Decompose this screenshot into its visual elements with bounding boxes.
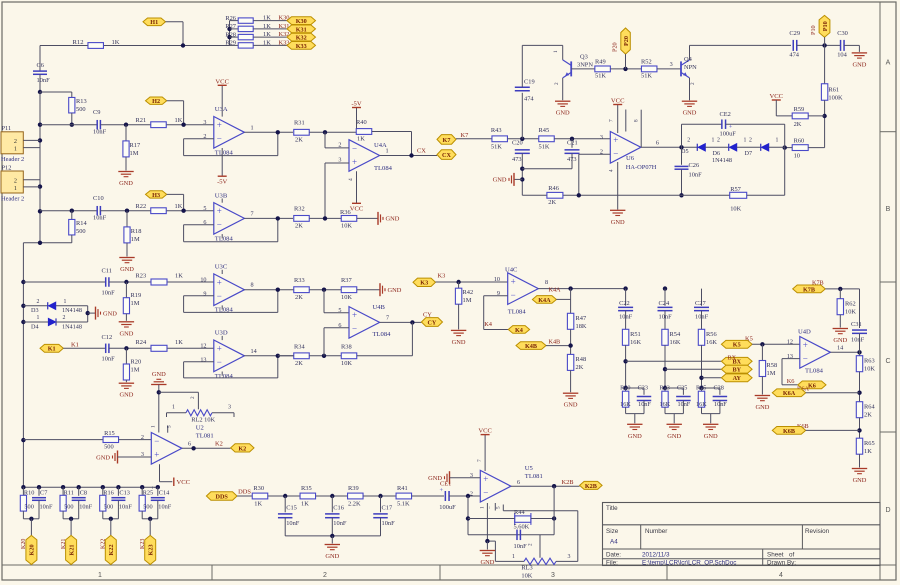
svg-text:16K: 16K [706, 339, 717, 346]
svg-text:HA-OP07H: HA-OP07H [626, 164, 657, 171]
port K4B [516, 342, 546, 350]
svg-text:K1: K1 [71, 342, 79, 349]
svg-text:P11: P11 [2, 125, 12, 132]
resistor R46 2K [547, 192, 563, 198]
port K6A [772, 389, 805, 397]
svg-text:TL084: TL084 [805, 368, 824, 375]
svg-text:GND: GND [704, 433, 718, 440]
svg-text:10nF: 10nF [37, 77, 51, 84]
resistor R21 1K [151, 122, 167, 128]
svg-text:3: 3 [338, 156, 341, 163]
svg-text:R56: R56 [706, 331, 717, 338]
svg-text:1K: 1K [263, 31, 271, 38]
svg-text:GND: GND [755, 404, 769, 411]
svg-text:+: + [511, 276, 516, 286]
port H1 [143, 18, 166, 26]
svg-text:K30: K30 [296, 18, 307, 25]
wire Q4 collector [689, 45, 691, 60]
port K4A [532, 296, 556, 304]
op-amp U5 TL081 [480, 470, 511, 502]
svg-text:A: A [886, 60, 891, 67]
potentiometer RL3 10K [524, 558, 556, 564]
svg-text:8: 8 [545, 279, 548, 286]
ground power port U2 pin3 [117, 451, 119, 464]
svg-text:GND: GND [120, 266, 134, 273]
svg-text:U5: U5 [525, 465, 534, 472]
svg-text:K2B: K2B [562, 479, 574, 486]
resistor R22 1K [151, 208, 167, 214]
svg-text:VCC: VCC [478, 428, 492, 435]
svg-text:1: 1 [98, 572, 102, 579]
svg-text:1N4148: 1N4148 [62, 324, 82, 331]
resistor R18 1M [126, 211, 128, 227]
svg-text:+: + [352, 310, 357, 320]
port DDS [206, 492, 237, 501]
resistor R43 51K [492, 136, 508, 142]
svg-text:10nF: 10nF [102, 356, 116, 363]
op-amp U3B TL084 [214, 203, 245, 235]
resistor R39 2.2K [348, 493, 364, 499]
svg-text:K20: K20 [29, 544, 36, 555]
resistor R42 1M [458, 282, 460, 288]
svg-text:1: 1 [776, 138, 779, 144]
power VCC U6 pin7 [617, 105, 619, 134]
svg-text:2: 2 [323, 572, 327, 579]
svg-text:+: + [483, 474, 488, 484]
svg-text:1M: 1M [131, 367, 140, 374]
svg-text:3: 3 [568, 554, 571, 560]
svg-text:GND: GND [564, 402, 578, 409]
svg-text:2K: 2K [864, 412, 872, 419]
svg-text:GND: GND [853, 477, 867, 484]
resistor R58 1M [761, 344, 763, 360]
svg-text:Number: Number [645, 528, 667, 535]
svg-text:K32: K32 [296, 35, 307, 42]
svg-text:−: − [217, 357, 222, 367]
svg-text:10nF: 10nF [119, 504, 132, 511]
port CX [437, 150, 456, 160]
svg-text:R41: R41 [397, 485, 408, 492]
svg-text:R60: R60 [794, 138, 805, 145]
svg-text:2K: 2K [548, 199, 556, 206]
svg-text:C14: C14 [159, 490, 170, 497]
op-amp U4A TL084 [349, 140, 380, 172]
svg-text:of: of [789, 552, 795, 559]
svg-text:R21: R21 [136, 117, 147, 124]
ground R19 [119, 321, 134, 323]
svg-text:K6: K6 [787, 378, 795, 385]
wire capacitor bottom bus [285, 535, 380, 537]
svg-text:1: 1 [14, 146, 17, 153]
svg-text:R62: R62 [845, 301, 856, 308]
svg-text:R59: R59 [794, 106, 805, 113]
svg-text:E:\temp\LCR\lcr\LCR_OP.SchDoc: E:\temp\LCR\lcr\LCR_OP.SchDoc [642, 559, 736, 566]
svg-text:2: 2 [14, 177, 17, 184]
wire R15 row [23, 439, 103, 441]
wire U4D feedback [782, 358, 800, 360]
svg-text:R33: R33 [294, 277, 305, 284]
svg-text:10nF: 10nF [382, 520, 396, 527]
wire U3B feedback [184, 224, 214, 226]
svg-text:C6: C6 [37, 62, 44, 69]
svg-text:3: 3 [203, 119, 206, 126]
svg-text:GND: GND [628, 433, 642, 440]
svg-text:+: + [352, 157, 357, 167]
svg-text:1M: 1M [131, 300, 140, 307]
svg-text:R50: R50 [620, 385, 630, 392]
svg-text:K1: K1 [48, 346, 56, 353]
capacitor C30 104 [840, 40, 842, 51]
svg-text:TL084: TL084 [373, 331, 392, 338]
svg-text:CX: CX [417, 147, 426, 154]
power VCC U5 pin7 [484, 435, 486, 471]
svg-text:TL081: TL081 [196, 432, 214, 439]
diode D7 1N4148 [760, 144, 762, 151]
resistor R52 51K [641, 66, 657, 72]
wire Q3 collector net [522, 44, 562, 46]
svg-text:R64: R64 [864, 404, 875, 411]
svg-text:1K: 1K [254, 501, 262, 508]
ground power port R37 [379, 283, 381, 296]
svg-text:10nF: 10nF [93, 215, 107, 222]
svg-text:C11: C11 [102, 268, 112, 275]
resistor R17 1M [125, 125, 127, 141]
svg-text:D: D [885, 507, 890, 514]
resistor R36 10K [341, 216, 357, 222]
resistor R65 1K [856, 438, 862, 454]
svg-text:10K: 10K [845, 309, 856, 316]
svg-text:CE2: CE2 [720, 111, 731, 118]
svg-text:VCC: VCC [350, 206, 364, 213]
svg-text:10K: 10K [341, 223, 352, 230]
ground R48 [563, 392, 578, 394]
svg-text:NPN: NPN [684, 64, 697, 71]
svg-text:2K: 2K [576, 364, 584, 371]
svg-text:RL3: RL3 [521, 565, 532, 572]
svg-text:10nF: 10nF [851, 337, 865, 344]
svg-text:GND: GND [556, 110, 570, 117]
svg-text:+: + [217, 206, 222, 216]
ground R58 [755, 395, 770, 397]
svg-text:R25: R25 [143, 490, 154, 497]
svg-text:C10: C10 [93, 195, 104, 202]
svg-text:GND: GND [152, 371, 166, 378]
svg-text:C13: C13 [119, 490, 129, 497]
wire row2 with capacitor C10 10nF [40, 210, 97, 212]
svg-text:R58: R58 [767, 362, 778, 369]
svg-text:1: 1 [37, 315, 40, 321]
svg-text:14: 14 [251, 348, 257, 355]
svg-text:474: 474 [524, 96, 534, 103]
svg-text:P20: P20 [623, 36, 630, 46]
wire net K7 row [456, 138, 492, 140]
svg-text:6: 6 [188, 441, 191, 448]
svg-text:R19: R19 [131, 292, 142, 299]
svg-text:1: 1 [172, 405, 175, 411]
resistor R23 1K [151, 279, 167, 285]
svg-text:+: + [154, 450, 159, 460]
wire U3D feedback [184, 361, 214, 363]
resistor R35 1K [300, 493, 316, 499]
svg-text:R48: R48 [576, 356, 587, 363]
svg-text:2: 2 [63, 315, 66, 321]
svg-text:10K: 10K [730, 206, 741, 213]
potentiometer RL2 10K [186, 410, 212, 416]
svg-text:GND: GND [119, 330, 133, 337]
svg-text:4: 4 [609, 169, 615, 172]
svg-text:R34: R34 [294, 344, 305, 351]
svg-text:C16: C16 [333, 504, 344, 511]
ground U6 pin4 [617, 162, 619, 210]
port K3 [413, 278, 436, 286]
svg-text:R15: R15 [104, 430, 115, 437]
svg-text:Sheet: Sheet [767, 552, 784, 559]
svg-text:R61: R61 [828, 87, 839, 94]
svg-text:C23: C23 [638, 385, 648, 392]
svg-text:GND: GND [119, 180, 133, 187]
port K7 [437, 135, 456, 145]
svg-text:5.60K: 5.60K [514, 524, 530, 531]
svg-text:GND: GND [667, 433, 681, 440]
svg-text:8: 8 [634, 119, 640, 122]
svg-text:10nF: 10nF [79, 504, 92, 511]
svg-text:16K: 16K [630, 339, 641, 346]
svg-text:K6B: K6B [783, 428, 795, 435]
svg-text:C15: C15 [286, 504, 297, 511]
svg-text:100uF: 100uF [439, 504, 456, 511]
power -5V U4A [356, 108, 358, 129]
wire net CX [380, 155, 437, 157]
port P20 [621, 28, 631, 54]
svg-text:5: 5 [496, 506, 502, 509]
svg-text:K2B: K2B [585, 483, 597, 490]
svg-text:500: 500 [24, 504, 33, 511]
svg-text:3: 3 [551, 572, 555, 579]
svg-text:2: 2 [37, 299, 40, 305]
svg-text:1K: 1K [175, 203, 183, 210]
svg-text:2: 2 [717, 138, 720, 144]
svg-text:R28: R28 [225, 31, 236, 38]
svg-text:TL084: TL084 [374, 165, 393, 172]
svg-text:10nF: 10nF [689, 172, 703, 179]
svg-text:GND: GND [683, 110, 697, 117]
svg-text:2K: 2K [295, 360, 303, 367]
svg-text:R22: R22 [136, 203, 147, 210]
wire U4C feedback [484, 295, 508, 297]
svg-text:GND: GND [96, 454, 110, 461]
svg-text:C8: C8 [80, 490, 87, 497]
svg-text:2: 2 [528, 543, 534, 546]
resistor R44 5.60K [515, 516, 531, 522]
svg-text:D6: D6 [713, 150, 721, 157]
svg-text:R13: R13 [76, 98, 87, 105]
svg-text:1K: 1K [301, 501, 309, 508]
port K1 [40, 344, 63, 352]
capacitors C15 C16 C17 10nF [284, 496, 286, 512]
svg-text:P10: P10 [822, 21, 829, 31]
resistor R33 2K [294, 287, 310, 293]
svg-text:R55: R55 [696, 385, 706, 392]
wire U4B inverting input [324, 327, 349, 329]
svg-text:TL084: TL084 [508, 309, 527, 316]
capacitor 10nF U5 loop [516, 530, 518, 541]
svg-text:3: 3 [670, 61, 673, 68]
op-amp U6 HA-OP07H [610, 132, 641, 164]
svg-text:1: 1 [712, 138, 715, 144]
ground RL3 [480, 550, 495, 552]
svg-text:C26: C26 [689, 162, 700, 169]
svg-text:16K: 16K [620, 401, 631, 408]
svg-text:1: 1 [14, 185, 17, 192]
port K2B [580, 481, 603, 489]
svg-text:2: 2 [14, 138, 17, 145]
svg-text:K7: K7 [443, 137, 451, 144]
resistor R41 5.1K [396, 493, 412, 499]
op-amp U2 TL081 [151, 433, 182, 465]
diode D5 1N4148 [696, 144, 698, 151]
svg-text:10K: 10K [341, 360, 352, 367]
svg-text:K21: K21 [61, 539, 67, 549]
ground R20 [119, 382, 134, 384]
ground Q4 emitter [682, 100, 697, 102]
wire U5 feedback loop [467, 496, 469, 535]
svg-text:1K: 1K [175, 117, 183, 124]
wire U6 inverting input [579, 153, 611, 155]
port H3 [146, 191, 167, 198]
svg-text:VCC: VCC [770, 93, 784, 100]
svg-text:R43: R43 [491, 127, 502, 134]
svg-text:1K: 1K [357, 136, 365, 143]
svg-text:Header 2: Header 2 [1, 156, 24, 163]
svg-text:9: 9 [203, 290, 206, 297]
svg-text:10nF: 10nF [40, 504, 53, 511]
svg-text:−: − [488, 506, 494, 509]
svg-text:R47: R47 [576, 315, 587, 322]
resistor R34 2K [294, 353, 310, 359]
wire U4A inverting input [324, 132, 326, 148]
svg-text:−: − [483, 488, 488, 498]
wire left bus lower [23, 242, 71, 244]
svg-text:R36: R36 [340, 209, 351, 216]
svg-text:1M: 1M [131, 236, 140, 243]
port P10 [819, 15, 830, 37]
svg-text:Title: Title [606, 505, 618, 512]
svg-text:2K: 2K [295, 223, 303, 230]
svg-text:51K: 51K [595, 73, 606, 80]
op-amp U4C TL084 [508, 273, 539, 305]
svg-text:4: 4 [348, 178, 354, 181]
svg-text:K3: K3 [438, 273, 446, 280]
header P11 [1, 132, 23, 154]
ground R65 [852, 468, 867, 470]
svg-text:10K: 10K [521, 573, 532, 580]
svg-text:K33: K33 [296, 43, 307, 50]
svg-text:1M: 1M [767, 370, 776, 377]
svg-text:K7: K7 [461, 132, 470, 139]
svg-text:K23: K23 [147, 544, 154, 555]
svg-text:6: 6 [656, 139, 659, 146]
svg-text:K20: K20 [21, 539, 27, 549]
svg-text:R26: R26 [225, 15, 236, 22]
svg-text:AY: AY [733, 375, 742, 382]
resistor R45 51K [539, 136, 555, 142]
svg-text:10nF: 10nF [102, 290, 116, 297]
svg-text:18K: 18K [576, 323, 587, 330]
svg-text:12: 12 [200, 343, 206, 350]
svg-text:P20: P20 [612, 42, 619, 52]
svg-text:500: 500 [104, 504, 113, 511]
svg-text:−: − [154, 436, 159, 446]
wire U5 offset pins [486, 503, 488, 541]
svg-text:Header 2: Header 2 [1, 196, 24, 203]
svg-text:C19: C19 [524, 79, 535, 86]
svg-text:13: 13 [200, 357, 206, 364]
svg-text:2: 2 [687, 138, 690, 144]
svg-text:4: 4 [779, 572, 783, 579]
wire U4A noninverting input [325, 162, 349, 164]
svg-text:BY: BY [732, 367, 741, 374]
svg-text:C28: C28 [714, 385, 724, 392]
svg-text:1K: 1K [112, 39, 120, 46]
svg-text:D5: D5 [681, 148, 689, 155]
resistor R13 500 [40, 91, 72, 93]
svg-text:−: − [217, 134, 222, 144]
svg-text:R63: R63 [864, 358, 875, 365]
svg-text:1: 1 [251, 124, 254, 131]
svg-text:R37: R37 [341, 277, 352, 284]
power VCC U3A [221, 85, 223, 116]
svg-text:1K: 1K [263, 40, 271, 47]
svg-text:−: − [352, 143, 357, 153]
svg-text:5: 5 [338, 307, 341, 314]
svg-text:GND: GND [833, 337, 847, 344]
wire resistor-bank bus [229, 21, 231, 46]
svg-text:51K: 51K [491, 144, 502, 151]
resistor R30 1K [252, 493, 268, 499]
svg-text:C17: C17 [382, 504, 393, 511]
title block [603, 503, 881, 566]
svg-text:51K: 51K [641, 73, 652, 80]
svg-text:−: − [352, 324, 357, 334]
svg-text:C29: C29 [789, 30, 800, 37]
svg-text:R18: R18 [131, 228, 142, 235]
svg-text:1: 1 [151, 425, 157, 428]
svg-text:2: 2 [141, 434, 144, 441]
svg-text:Q4: Q4 [684, 56, 693, 63]
power -5V U3A [221, 148, 223, 176]
svg-text:GND: GND [493, 177, 507, 184]
port CY [421, 318, 442, 327]
svg-text:10: 10 [794, 153, 800, 160]
ground above U2 [151, 384, 166, 386]
resistor R47 18K [570, 289, 572, 314]
svg-text:K4: K4 [484, 321, 493, 328]
svg-text:R54: R54 [670, 331, 681, 338]
svg-text:7: 7 [251, 210, 254, 217]
svg-text:1K: 1K [263, 15, 271, 22]
svg-text:5: 5 [203, 205, 206, 212]
wire U4C output bus [538, 288, 625, 290]
op-amp U4D TL084 [800, 337, 831, 369]
svg-text:K23: K23 [140, 539, 146, 549]
svg-text:D7: D7 [745, 150, 753, 157]
svg-text:500: 500 [143, 504, 152, 511]
svg-text:GND: GND [388, 287, 402, 294]
capacitor CE1 100uF [444, 491, 446, 501]
ground R62 [833, 328, 848, 330]
resistor R40 1K [356, 129, 372, 135]
svg-text:10nF: 10nF [333, 520, 347, 527]
